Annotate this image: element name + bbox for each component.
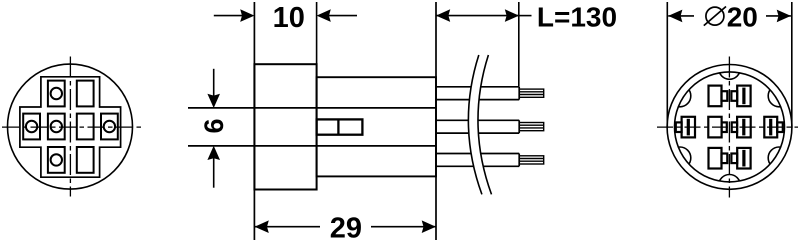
svg-text:20: 20 (727, 1, 758, 32)
svg-text:L=130: L=130 (537, 1, 617, 32)
svg-text:29: 29 (330, 213, 362, 244)
svg-text:10: 10 (273, 2, 305, 34)
svg-text:6: 6 (199, 118, 229, 133)
